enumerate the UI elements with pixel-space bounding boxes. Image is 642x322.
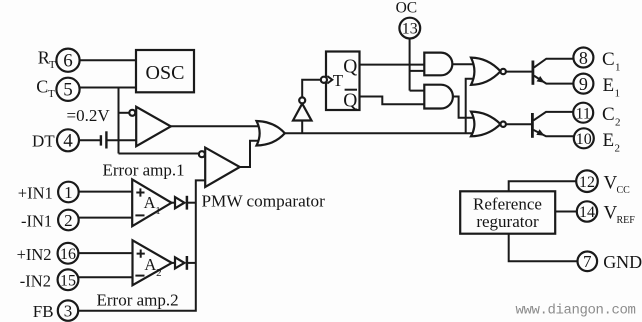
wire sawtooth to comparator 1 inverting input <box>119 112 130 114</box>
NOR gate 1 <box>471 58 506 85</box>
wire OC to AND1 input <box>410 70 427 72</box>
svg-text:1: 1 <box>155 205 161 217</box>
svg-text:regurator: regurator <box>476 212 539 231</box>
pin 14 Vref <box>577 201 635 226</box>
svg-text:6: 6 <box>63 51 73 72</box>
svg-text:+IN2: +IN2 <box>17 245 52 264</box>
svg-text:=0.2V: =0.2V <box>67 106 111 125</box>
wire error amp1 +input <box>79 191 133 193</box>
svg-text:T: T <box>49 59 56 71</box>
svg-text:5: 5 <box>63 80 73 101</box>
svg-text:4: 4 <box>63 131 73 152</box>
offset source 0.2V battery <box>101 131 107 148</box>
pin 5 CT <box>36 77 79 101</box>
svg-text:1: 1 <box>64 183 73 202</box>
svg-text:GND: GND <box>603 252 642 272</box>
wire error amp1 -input <box>79 217 133 219</box>
svg-text:16: 16 <box>60 246 76 263</box>
wire offset source to comparator 1 <box>106 139 136 141</box>
wire flip-flop Q to AND1 <box>359 64 428 66</box>
wire DT pin to offset source <box>79 139 100 141</box>
wire OC to AND2 input <box>410 90 427 92</box>
svg-text:13: 13 <box>402 21 418 38</box>
svg-text:T: T <box>48 88 55 100</box>
svg-text:Q: Q <box>343 56 357 77</box>
svg-text:C: C <box>602 104 615 125</box>
watermark www.diangon.com <box>516 303 636 319</box>
wire FB feedback bus to comparator 2 <box>78 180 205 310</box>
pin 15 -IN2 <box>20 269 79 290</box>
svg-text:A: A <box>144 193 156 212</box>
svg-text:A: A <box>144 255 156 274</box>
label Error amp.1 <box>103 160 185 179</box>
svg-text:OSC: OSC <box>146 62 185 84</box>
svg-text:Reference: Reference <box>473 195 542 214</box>
svg-text:2: 2 <box>615 142 621 154</box>
svg-text:-IN2: -IN2 <box>20 271 51 290</box>
svg-text:Error amp.2: Error amp.2 <box>97 291 179 310</box>
pin 4 DT <box>32 129 79 151</box>
OSC oscillator box <box>136 50 194 92</box>
label Error amp.2 <box>97 291 179 310</box>
svg-text:2: 2 <box>156 267 162 279</box>
svg-text:E: E <box>603 75 615 96</box>
svg-text:OC: OC <box>396 0 418 17</box>
svg-text:C: C <box>602 49 615 70</box>
wire comparator 1 output to OR gate <box>170 125 264 127</box>
flip-flop <box>321 52 360 112</box>
svg-text:1: 1 <box>615 88 621 100</box>
label 0.2V offset <box>67 106 111 125</box>
AND gate 2 <box>424 85 453 109</box>
pin 9 E1 <box>573 74 620 100</box>
svg-text:E: E <box>603 130 615 151</box>
diode D2 <box>171 256 187 270</box>
svg-text:V: V <box>604 203 618 224</box>
transistor Q2 <box>532 112 573 138</box>
wire inverter output to flip-flop clock <box>302 80 321 98</box>
reference regulator box <box>460 191 555 233</box>
pin 3 FB <box>33 300 78 321</box>
svg-text:www.diangon.com: www.diangon.com <box>516 303 636 319</box>
svg-text:14: 14 <box>579 204 595 221</box>
svg-text:15: 15 <box>60 272 76 289</box>
svg-text:8: 8 <box>579 48 588 68</box>
wire AND2 output to NOR2 <box>452 97 476 118</box>
wire NOR1 output to Q1 base <box>506 71 532 73</box>
svg-text:7: 7 <box>583 252 592 271</box>
wire comparator 2 output to OR gate <box>239 141 264 167</box>
inverter (to flip-flop clock) <box>293 97 312 120</box>
pin 7 GND <box>578 251 642 272</box>
svg-text:10: 10 <box>576 131 592 148</box>
svg-text:REF: REF <box>617 215 636 226</box>
OR gate <box>257 121 285 146</box>
pin 10 E2 <box>574 128 620 154</box>
svg-text:FB: FB <box>33 302 54 321</box>
svg-text:Error amp.1: Error amp.1 <box>103 160 185 179</box>
NOR gate 2 <box>471 112 506 137</box>
diode D1 <box>171 196 187 210</box>
wire CT vertical sawtooth bus <box>118 88 120 154</box>
wire CT to OSC <box>79 87 137 89</box>
svg-text:DT: DT <box>32 131 55 150</box>
pin 1 +IN1 <box>18 182 79 203</box>
wire OR output line to NOR gates <box>285 132 481 134</box>
pin 12 Vcc <box>576 170 630 195</box>
wire sawtooth to comparator 2 inverting input <box>119 153 199 155</box>
wire diode1 to feedback bus <box>187 202 196 204</box>
error amp A2 <box>133 240 172 285</box>
wire NOR2 output to Q2 base <box>506 123 531 125</box>
svg-text:11: 11 <box>575 105 590 122</box>
svg-text:12: 12 <box>579 174 595 191</box>
pin 16 +IN2 <box>17 243 79 264</box>
pin 13 OC <box>396 0 421 39</box>
svg-text:3: 3 <box>64 302 73 321</box>
pin 8 C1 <box>573 48 620 74</box>
AND gate 1 <box>424 53 452 76</box>
wire branch up to NOR1 lower input <box>466 79 474 134</box>
wire error amp2 -input <box>78 276 132 278</box>
wire OC vertical <box>409 38 411 90</box>
wire error amp2 +input <box>78 252 132 254</box>
pin 2 -IN1 <box>21 210 79 231</box>
svg-text:9: 9 <box>579 74 588 94</box>
wire GND pin to reference regulator <box>509 233 578 261</box>
label PMW comparator <box>202 192 326 211</box>
wire diode2 to feedback bus <box>187 262 196 264</box>
wire Vref pin to reference regulator <box>555 211 577 213</box>
comparator 2 PWM <box>199 148 240 187</box>
pin 6 RT <box>38 48 80 72</box>
transistor Q1 <box>533 59 574 85</box>
svg-text:CC: CC <box>617 185 631 196</box>
svg-text:Q: Q <box>343 90 357 111</box>
svg-text:T: T <box>333 71 344 90</box>
svg-text:PMW comparator: PMW comparator <box>202 192 326 211</box>
wire AND1 output to NOR1 <box>452 63 474 65</box>
svg-text:+IN1: +IN1 <box>18 184 53 203</box>
svg-text:C: C <box>36 77 48 97</box>
svg-text:2: 2 <box>64 211 73 230</box>
svg-text:-IN1: -IN1 <box>21 212 52 231</box>
svg-text:1: 1 <box>615 61 621 73</box>
comparator 1 dead-time <box>129 107 171 146</box>
wire Vcc pin to reference regulator <box>509 181 576 192</box>
error amp A1 <box>132 179 171 226</box>
wire flip-flop Qbar to AND2 <box>359 97 427 105</box>
svg-text:V: V <box>604 172 618 193</box>
wire RT to OSC <box>80 59 137 61</box>
svg-text:2: 2 <box>615 117 621 129</box>
wire stem to inverter <box>301 121 303 134</box>
pin 11 C2 <box>573 103 620 129</box>
